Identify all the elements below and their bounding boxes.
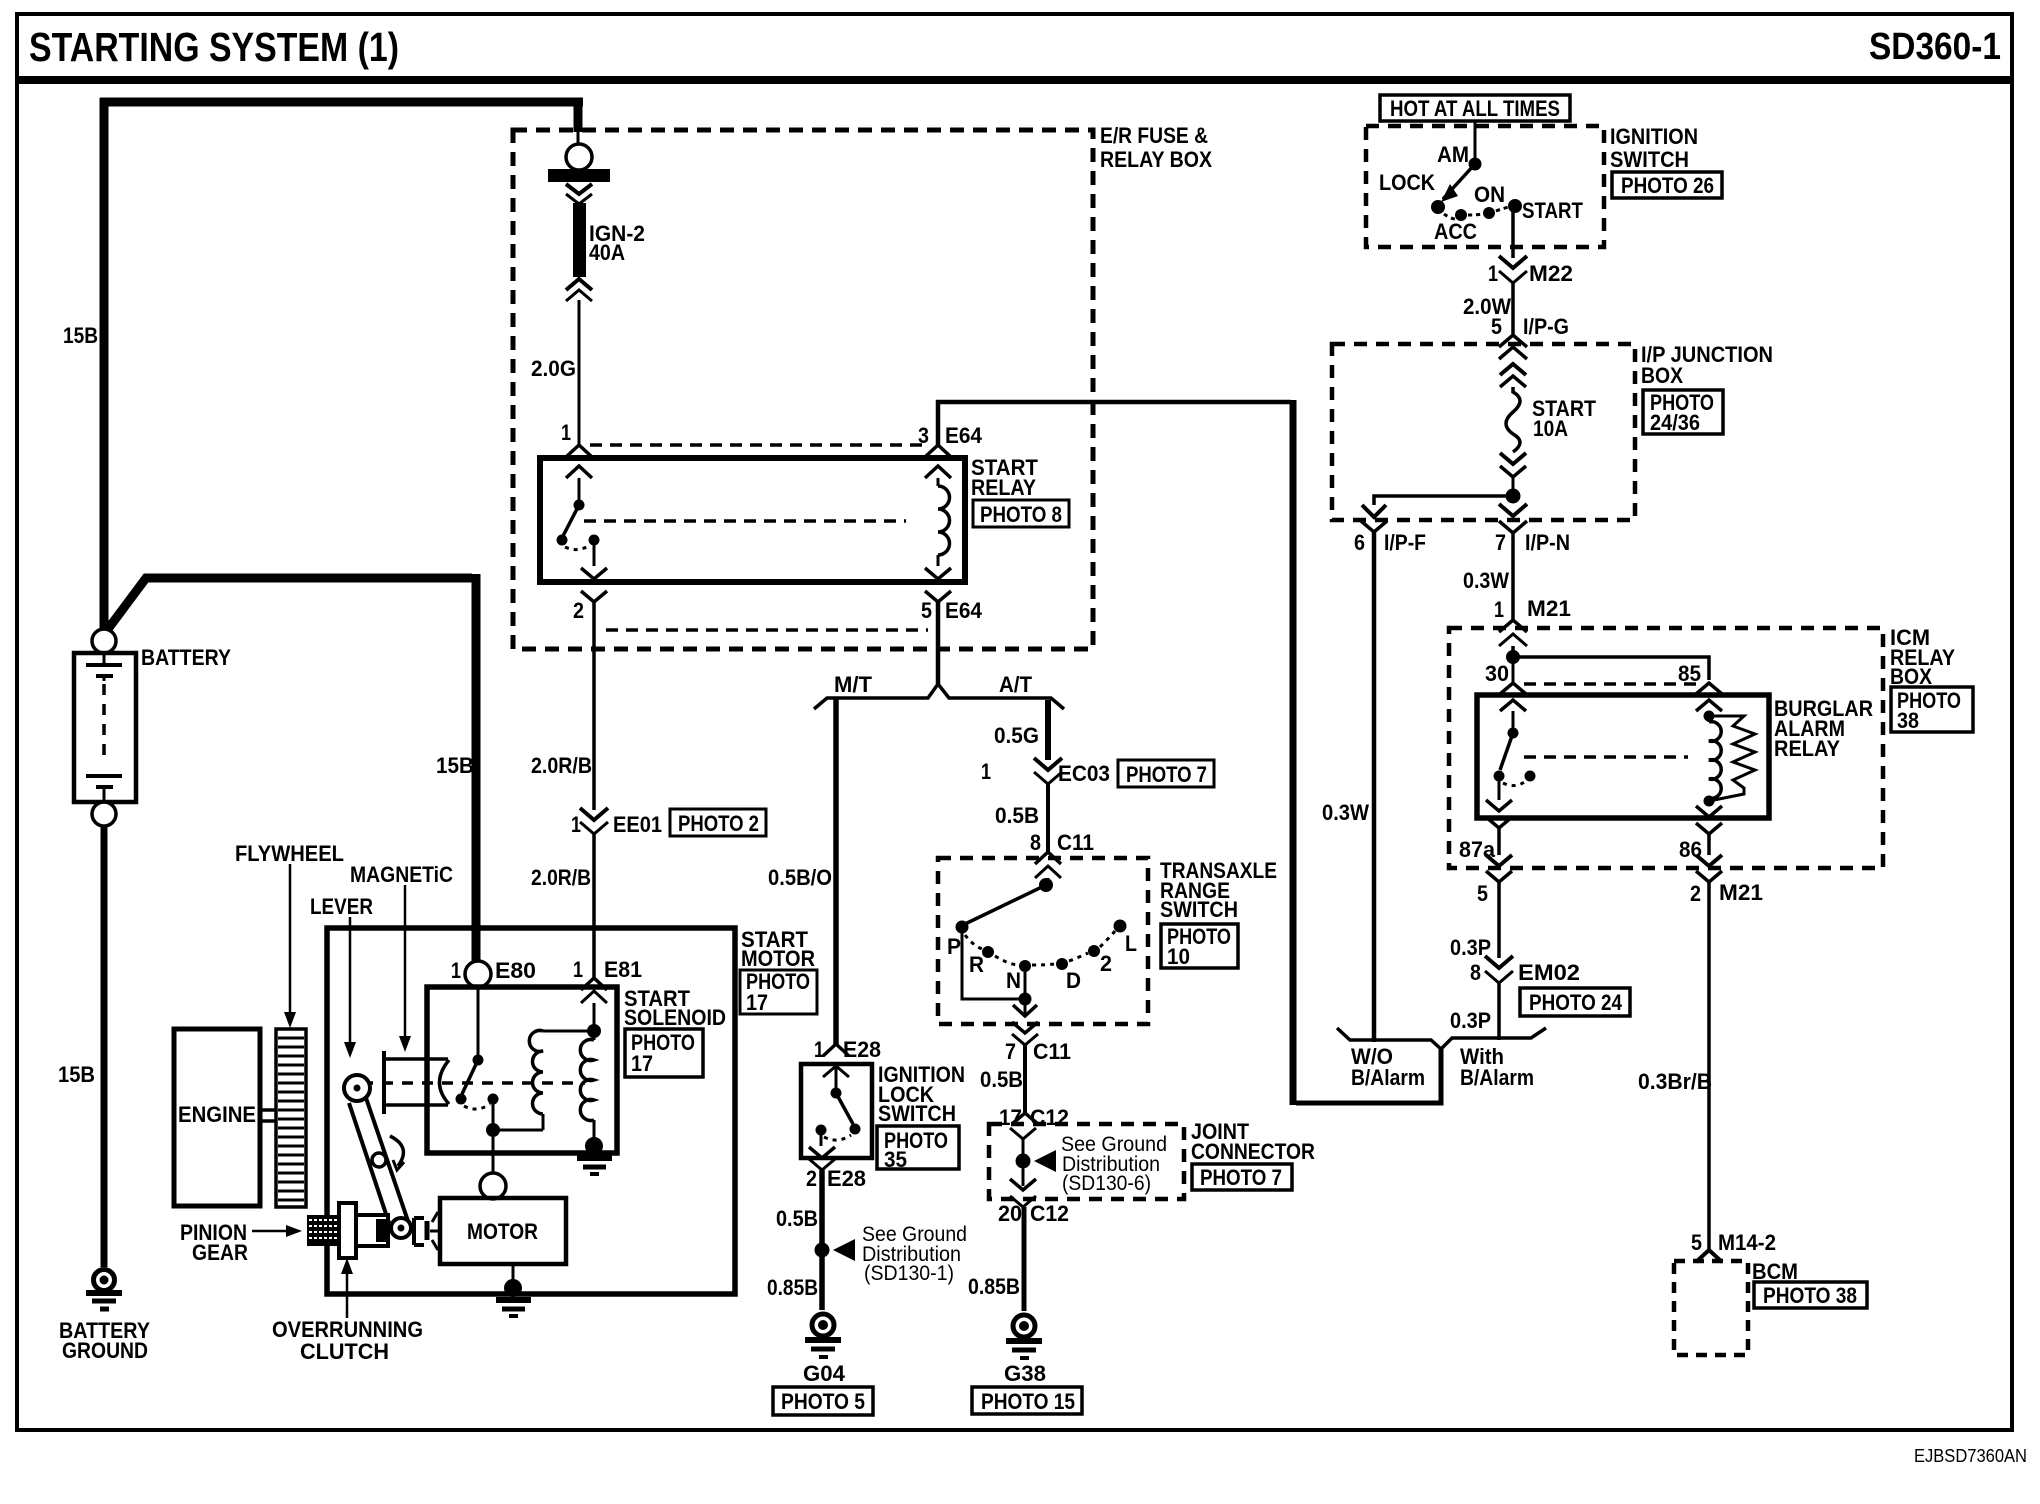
svg-text:EM02: EM02 <box>1518 960 1580 985</box>
wire I/P-N to M21 0.3W <box>1511 533 1515 620</box>
label IGN-2 40A <box>589 221 645 265</box>
svg-text:10A: 10A <box>1533 416 1568 441</box>
svg-text:SD360-1: SD360-1 <box>1869 26 2001 68</box>
label LEVER with pointer <box>310 894 373 1058</box>
svg-text:EC03: EC03 <box>1058 761 1110 786</box>
connector 8 EM02 <box>1470 956 1580 985</box>
svg-text:M21: M21 <box>1719 880 1763 905</box>
ignition lock switch contacts <box>809 1066 861 1158</box>
svg-text:40A: 40A <box>589 240 625 265</box>
label PINION GEAR with pointer <box>180 1220 302 1265</box>
label box PHOTO 26 <box>1612 172 1722 198</box>
svg-text:5: 5 <box>1491 314 1502 339</box>
wire C11 to C12 0.5B <box>1023 1045 1027 1113</box>
engine shaft <box>260 1110 276 1121</box>
svg-text:17: 17 <box>631 1051 653 1076</box>
svg-text:2.0R/B: 2.0R/B <box>531 865 591 890</box>
connector dashed line pins 30-85 <box>1524 682 1697 686</box>
svg-text:D: D <box>1066 968 1081 993</box>
svg-text:0.85B: 0.85B <box>968 1274 1020 1299</box>
connector dashed line E64 top <box>590 443 928 447</box>
label box PHOTO 7 (EC03) <box>1118 760 1214 787</box>
label BATTERY GROUND <box>59 1318 150 1363</box>
connector 2 E28 <box>806 1159 866 1191</box>
svg-text:RELAY: RELAY <box>971 475 1036 500</box>
svg-text:PHOTO 15: PHOTO 15 <box>981 1389 1075 1414</box>
start motor outer box <box>327 928 735 1294</box>
pin 3 E64 <box>918 423 983 478</box>
label box PHOTO 8 <box>973 500 1069 527</box>
pin 1 E64 <box>561 420 592 478</box>
connector E81 <box>573 957 642 1003</box>
battery negative terminal <box>92 802 116 826</box>
svg-text:24/36: 24/36 <box>1650 410 1700 435</box>
svg-text:(SD130-1): (SD130-1) <box>864 1262 954 1285</box>
svg-text:1: 1 <box>571 812 581 837</box>
E/R fuse and relay box (dashed) <box>513 130 1093 649</box>
pin 30 chevrons <box>1500 657 1526 711</box>
ignition switch contacts <box>1431 121 1522 221</box>
svg-text:GEAR: GEAR <box>192 1240 248 1265</box>
start relay coil <box>938 478 950 566</box>
label box PHOTO 35 <box>877 1126 959 1172</box>
label box PHOTO 10 <box>1161 924 1238 969</box>
wire E/R feed vertical <box>1290 400 1297 1105</box>
svg-text:SWITCH: SWITCH <box>878 1101 956 1126</box>
svg-text:ENGINE: ENGINE <box>178 1102 256 1127</box>
wire relay pin5 down to branch <box>936 601 941 684</box>
wire relay pin3 up and right to alarm branch <box>938 402 1291 445</box>
transaxle range switch box (dashed) <box>938 858 1148 1024</box>
svg-text:5: 5 <box>1477 881 1488 906</box>
ignition lock switch box <box>801 1064 872 1158</box>
connector 5 M14-2 <box>1691 1230 1776 1262</box>
svg-text:G38: G38 <box>1004 1361 1046 1386</box>
wire branch to I/P-F <box>1361 496 1513 532</box>
burglar alarm relay coil <box>1704 711 1722 807</box>
svg-text:M/T: M/T <box>834 672 873 697</box>
svg-text:1: 1 <box>981 759 991 784</box>
ground distribution junction (SD130-1) <box>815 1239 856 1261</box>
transaxle switch contacts <box>956 878 1127 972</box>
label FLYWHEEL with pointer <box>235 841 344 1028</box>
battery BT1 <box>74 653 136 802</box>
svg-text:STARTING SYSTEM (1): STARTING SYSTEM (1) <box>29 24 399 70</box>
wire battery to start motor 15B <box>108 578 472 629</box>
svg-text:17: 17 <box>746 990 768 1015</box>
battery positive terminal <box>92 629 116 653</box>
svg-text:IGNITION: IGNITION <box>1610 124 1698 149</box>
label box PHOTO 2 <box>670 809 766 836</box>
svg-text:2: 2 <box>1690 881 1701 906</box>
pin 85 chevrons <box>1696 683 1722 711</box>
label box PHOTO 24 <box>1520 988 1630 1016</box>
svg-text:I/P-G: I/P-G <box>1523 314 1569 339</box>
junction node fuse output <box>1506 489 1521 504</box>
wire EM02 to option 0.3P <box>1497 983 1501 1040</box>
wire 86 to BCM 0.3Br/B <box>1707 882 1711 1250</box>
I/P junction box (dashed) <box>1332 344 1635 520</box>
svg-text:0.3P: 0.3P <box>1450 1008 1491 1033</box>
svg-text:HOT AT ALL TIMES: HOT AT ALL TIMES <box>1390 96 1560 121</box>
burglar relay switch <box>1494 711 1536 800</box>
motor terminal circle <box>480 1173 506 1199</box>
svg-text:SWITCH: SWITCH <box>1160 897 1238 922</box>
junction node 30/85 <box>1506 650 1520 664</box>
svg-text:E64: E64 <box>945 598 983 623</box>
wire I/P-F long drop 0.3W <box>1372 532 1377 1042</box>
label See Ground Distribution (SD130-6) <box>1061 1133 1167 1195</box>
pinion gear <box>307 1215 339 1246</box>
wire M21 to pin 30 <box>1511 646 1515 655</box>
svg-text:PHOTO 38: PHOTO 38 <box>1763 1283 1857 1308</box>
svg-text:M22: M22 <box>1529 261 1573 286</box>
svg-text:7: 7 <box>1005 1039 1016 1064</box>
option bracket W/O B/Alarm <box>1337 1028 1441 1049</box>
svg-text:LEVER: LEVER <box>310 894 373 919</box>
connector EE01 <box>571 808 662 837</box>
svg-text:20: 20 <box>998 1201 1022 1226</box>
overrunning clutch body <box>339 1203 388 1258</box>
label IGNITION SWITCH <box>1610 124 1698 172</box>
svg-text:I/P-F: I/P-F <box>1384 530 1426 555</box>
wire C12 to G38 0.85B <box>1022 1207 1027 1311</box>
clutch coupling <box>414 1212 440 1250</box>
svg-text:2: 2 <box>1100 951 1112 976</box>
start solenoid box <box>427 987 617 1153</box>
ground G38 <box>1006 1315 1042 1358</box>
label ICM RELAY BOX <box>1890 625 1955 689</box>
svg-text:2.0G: 2.0G <box>531 356 576 381</box>
svg-text:ON: ON <box>1474 182 1505 207</box>
svg-text:CLUTCH: CLUTCH <box>300 1339 389 1364</box>
wire E28 to ground junction 0.5B <box>819 1170 825 1310</box>
lever arm <box>344 1075 411 1238</box>
label box PHOTO 15 <box>972 1387 1082 1414</box>
connector 5 (87a at box edge) <box>1477 828 1512 906</box>
svg-text:LOCK: LOCK <box>1379 170 1435 195</box>
start relay switch <box>557 478 600 566</box>
svg-text:FLYWHEEL: FLYWHEEL <box>235 841 344 866</box>
svg-text:6: 6 <box>1354 530 1365 555</box>
svg-text:C11: C11 <box>1057 830 1094 855</box>
solenoid internal ground <box>577 1137 612 1174</box>
motor ground <box>496 1264 531 1316</box>
wire option merge to E/R feed <box>1296 1049 1441 1103</box>
label START RELAY <box>971 455 1039 500</box>
BCM box (dashed) <box>1674 1261 1748 1355</box>
svg-text:SOLENOID: SOLENOID <box>624 1005 726 1030</box>
svg-text:8: 8 <box>1030 830 1041 855</box>
pin 2 E64 <box>573 568 607 623</box>
svg-text:C12: C12 <box>1030 1201 1069 1226</box>
flywheel <box>276 1029 306 1207</box>
solenoid coils <box>493 1003 601 1140</box>
svg-text:G04: G04 <box>803 1361 846 1386</box>
joint connector box (dashed) <box>989 1124 1184 1199</box>
motor M1 <box>440 1198 566 1264</box>
wire EC03 to C11 0.5B <box>1046 784 1050 852</box>
label box PHOTO 17 (solenoid) <box>625 1029 703 1077</box>
connector dashed line E64 bottom <box>606 628 928 632</box>
svg-text:BATTERY: BATTERY <box>141 645 231 670</box>
label With B/Alarm <box>1460 1044 1534 1090</box>
ignition switch position labels <box>1379 142 1583 244</box>
svg-text:1: 1 <box>814 1037 824 1062</box>
wire M/T branch 0.5B/O <box>833 698 839 1044</box>
svg-text:PHOTO 8: PHOTO 8 <box>980 502 1062 527</box>
svg-text:E28: E28 <box>843 1037 881 1062</box>
wire 87a to EM02 0.3P <box>1497 882 1501 958</box>
svg-text:C11: C11 <box>1033 1039 1071 1064</box>
svg-text:N: N <box>1006 968 1021 993</box>
label box PHOTO 7 (joint) <box>1192 1164 1292 1190</box>
svg-text:SWITCH: SWITCH <box>1610 147 1689 172</box>
svg-text:35: 35 <box>884 1147 907 1172</box>
label BURGLAR ALARM RELAY <box>1774 696 1873 761</box>
pin 5 E64 <box>921 568 983 623</box>
svg-text:(SD130-6): (SD130-6) <box>1062 1172 1151 1195</box>
svg-text:E64: E64 <box>945 423 983 448</box>
connector 1 M22 <box>1488 256 1573 286</box>
wire fuse drop vertical <box>574 100 583 132</box>
fuse START 10A <box>1499 347 1527 490</box>
svg-text:E/R FUSE &: E/R FUSE & <box>1100 123 1208 148</box>
svg-text:38: 38 <box>1897 708 1919 733</box>
svg-text:GROUND: GROUND <box>62 1338 148 1363</box>
label JOINT CONNECTOR <box>1191 1119 1315 1164</box>
label box PHOTO 38 (BCM) <box>1754 1282 1867 1308</box>
wire A/T branch 0.5G <box>1045 700 1051 760</box>
label START MOTOR <box>741 927 815 971</box>
svg-text:1: 1 <box>573 957 583 982</box>
svg-text:0.5B: 0.5B <box>980 1067 1023 1092</box>
svg-text:PHOTO 26: PHOTO 26 <box>1621 173 1714 198</box>
svg-text:M14-2: M14-2 <box>1718 1230 1776 1255</box>
fuse IGN-2 40A <box>548 132 610 301</box>
svg-text:E81: E81 <box>604 957 642 982</box>
connector 7 I/P-N <box>1495 496 1570 555</box>
svg-text:0.85B: 0.85B <box>767 1275 818 1300</box>
engine block <box>174 1029 260 1206</box>
label START 10A <box>1532 396 1596 441</box>
ignition switch box (dashed) <box>1366 126 1604 247</box>
svg-text:EE01: EE01 <box>613 812 662 837</box>
svg-text:1: 1 <box>1494 597 1504 622</box>
svg-text:I/P-N: I/P-N <box>1525 530 1570 555</box>
connector 2 M21 (86 at box edge) <box>1690 834 1763 906</box>
svg-text:0.3Br/B: 0.3Br/B <box>1638 1069 1712 1094</box>
svg-text:0.5B: 0.5B <box>776 1206 818 1231</box>
label OVERRUNNING CLUTCH with pointer <box>272 1258 423 1364</box>
svg-text:2.0R/B: 2.0R/B <box>531 753 592 778</box>
pin 87a <box>1459 800 1512 862</box>
label START SOLENOID <box>624 986 726 1030</box>
terminal E80 <box>451 958 536 987</box>
joint connector internals <box>1010 1128 1056 1190</box>
svg-text:1: 1 <box>561 420 571 445</box>
wire 15B left vertical to battery <box>100 98 109 629</box>
wire solenoid output to motor <box>492 1137 495 1174</box>
burglar alarm relay box <box>1477 695 1769 818</box>
burglar relay resistor <box>1709 716 1755 801</box>
svg-text:0.5B/O: 0.5B/O <box>768 865 832 890</box>
wire to pin 85 <box>1513 657 1709 680</box>
svg-text:10: 10 <box>1167 944 1190 969</box>
svg-text:PHOTO 2: PHOTO 2 <box>678 811 759 836</box>
label box PHOTO 24/36 <box>1643 390 1723 435</box>
wire relay pin2 down <box>592 601 596 810</box>
connector 5 I/P-G <box>1491 314 1569 347</box>
svg-text:0.5G: 0.5G <box>994 723 1039 748</box>
connector 8 C11 <box>1030 830 1094 878</box>
svg-text:30: 30 <box>1485 661 1509 686</box>
svg-text:15B: 15B <box>63 323 98 348</box>
label MAGNETIC with pointer <box>350 862 453 1052</box>
connector 1 E28 <box>814 1037 881 1062</box>
magnetic core symbol <box>384 1051 449 1114</box>
svg-text:E28: E28 <box>827 1166 866 1191</box>
svg-text:CONNECTOR: CONNECTOR <box>1191 1139 1315 1164</box>
svg-text:2.0W: 2.0W <box>1463 294 1511 319</box>
svg-text:15B: 15B <box>58 1062 95 1087</box>
label box PHOTO 5 <box>773 1387 873 1415</box>
label IGNITION LOCK SWITCH <box>878 1062 965 1126</box>
svg-text:PHOTO 24: PHOTO 24 <box>1529 990 1623 1015</box>
label I/P JUNCTION BOX <box>1641 342 1773 388</box>
svg-text:START: START <box>1522 198 1583 223</box>
svg-text:5: 5 <box>921 598 932 623</box>
ground G04 <box>805 1314 841 1357</box>
svg-text:0.3W: 0.3W <box>1463 568 1509 593</box>
svg-text:L: L <box>1125 931 1137 956</box>
svg-text:RELAY: RELAY <box>1774 736 1840 761</box>
transaxle position labels <box>947 931 1137 993</box>
label box PHOTO 17 (start motor) <box>740 969 817 1015</box>
svg-text:B/Alarm: B/Alarm <box>1460 1065 1534 1090</box>
svg-text:2: 2 <box>573 598 584 623</box>
svg-text:P: P <box>947 934 961 959</box>
connector EC03 <box>981 758 1110 786</box>
svg-text:15B: 15B <box>436 753 474 778</box>
svg-text:1: 1 <box>451 958 461 983</box>
ground battery ground <box>86 1270 122 1310</box>
connector 7 C11 <box>1005 1022 1071 1064</box>
svg-text:R: R <box>969 952 984 977</box>
svg-text:A/T: A/T <box>999 672 1033 697</box>
svg-text:8: 8 <box>1470 960 1481 985</box>
burglar relay internal dashed line <box>1524 755 1688 759</box>
relay internal dashed line <box>584 519 906 523</box>
svg-text:5: 5 <box>1691 1230 1702 1255</box>
svg-text:1: 1 <box>1488 261 1498 286</box>
svg-text:2: 2 <box>806 1166 817 1191</box>
wire 15B battery feed top horizontal <box>100 98 583 107</box>
svg-text:AM: AM <box>1437 142 1469 167</box>
label W/O B/Alarm <box>1351 1044 1425 1090</box>
svg-text:BOX: BOX <box>1641 363 1683 388</box>
label box HOT AT ALL TIMES <box>1380 95 1570 121</box>
svg-text:E80: E80 <box>495 958 536 983</box>
solenoid switch <box>456 987 501 1137</box>
svg-text:PHOTO 5: PHOTO 5 <box>781 1389 865 1414</box>
svg-text:ACC: ACC <box>1434 219 1477 244</box>
connector 17 C12 <box>999 1105 1069 1130</box>
label E/R FUSE & RELAY BOX <box>1100 123 1212 172</box>
svg-text:0.5B: 0.5B <box>995 803 1039 828</box>
svg-text:RELAY BOX: RELAY BOX <box>1100 147 1212 172</box>
connector 1 M21 <box>1494 596 1571 646</box>
wire M22 to I/P-G 2.0W <box>1511 283 1515 336</box>
connector 20 C12 <box>998 1196 1069 1226</box>
svg-text:7: 7 <box>1495 530 1506 555</box>
start relay box <box>540 458 965 582</box>
connector 6 I/P-F <box>1354 530 1426 555</box>
svg-text:0.3W: 0.3W <box>1322 800 1369 825</box>
wire EE01 to E81 2.0R/B <box>592 834 596 978</box>
transaxle P contact wire <box>962 933 1037 1016</box>
wire 2.0G fuse to relay pin 1 <box>578 300 581 446</box>
label box PHOTO 38 (ICM) <box>1891 687 1973 733</box>
wire branch M/T A/T <box>814 684 1064 709</box>
dashed actuator line <box>362 1081 585 1085</box>
svg-text:3: 3 <box>918 423 929 448</box>
ICM relay box (dashed) <box>1449 628 1883 868</box>
label See Ground Distribution (SD130-1) <box>862 1223 967 1285</box>
svg-text:PHOTO 7: PHOTO 7 <box>1126 762 1207 787</box>
svg-text:EJBSD7360AN: EJBSD7360AN <box>1914 1446 2027 1466</box>
svg-text:MAGNETiC: MAGNETiC <box>350 862 453 887</box>
rotation arrow <box>390 1136 403 1166</box>
pin 86 <box>1679 801 1722 862</box>
svg-text:MOTOR: MOTOR <box>467 1219 538 1244</box>
wire START to M22 <box>1511 212 1515 258</box>
label TRANSAXLE RANGE SWITCH <box>1160 858 1277 922</box>
option bracket With B/Alarm <box>1441 1028 1546 1049</box>
svg-text:MOTOR: MOTOR <box>741 946 815 971</box>
svg-text:PHOTO 7: PHOTO 7 <box>1200 1165 1282 1190</box>
wire 15B battery to ground <box>101 826 108 1267</box>
svg-text:M21: M21 <box>1527 596 1571 621</box>
svg-text:B/Alarm: B/Alarm <box>1351 1065 1425 1090</box>
